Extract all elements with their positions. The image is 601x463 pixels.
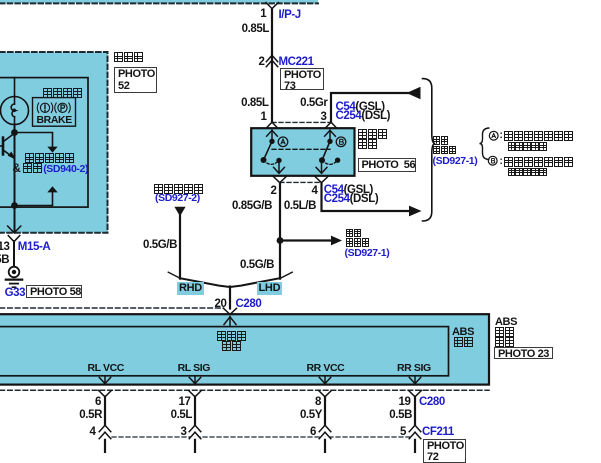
pin label 5 (CF211) [400,427,406,439]
RHD branch wire [180,278,230,287]
CF211 connector pin 5 [409,425,421,439]
connector label MC221 [279,57,314,69]
RL VCC output arrow [99,376,110,384]
legend B colon [500,157,503,167]
photo box 52 [114,67,157,93]
pin label 20 [215,299,227,311]
C280 chevron RL VCC pin 6 [99,390,112,396]
switch B input arrow [325,130,336,141]
switch name 制动灯 [358,129,388,141]
cluster inner circuit box [0,78,88,208]
junction node below lamp [11,129,18,136]
ABS inner label 制动灯 [217,331,247,343]
pin label 8 (C280) [315,397,321,409]
pin label 4 (CF211) [90,427,96,439]
I/P junction box (off-page, top strip) [0,0,318,3]
label BRAKE [37,115,72,126]
legend brace [478,127,498,163]
RR VCC output arrow [319,376,330,384]
wire 0.5Gr from C54 to brake switch pin 3 [331,93,408,122]
legend A text line1 踩下制动踏板的 [504,131,574,143]
connector label M15-A [18,242,51,254]
switch A arm [264,141,273,160]
brake warning symbol (P) [55,103,71,113]
legend B text line2 情况下开启 [508,167,548,179]
LHD branch wire [230,278,280,287]
connector label C254(DSL) top [336,111,391,123]
connector label C54(GSL) top [336,102,385,114]
wire label 0.85L (2) [241,98,268,110]
switch A contact dots [261,139,282,163]
ABS connector C280 dashed boundary [0,389,489,391]
CF211 connector pin 6 [319,425,331,439]
C280 chevron RR SIG pin 19 [409,390,422,396]
legend circle A [488,130,500,142]
switch A input arrow [267,130,278,141]
switch B output arrow to pin 4 [316,160,327,173]
reference label (SD927-1) at arrow [345,248,390,259]
connector boundary dashed line above brake light switch [272,121,331,123]
junction node on 0.85G/B wire [277,237,284,244]
CF211 connector pin 4 [99,425,111,439]
ABS inner label 开关 [222,341,242,353]
reference text 制动灯 (arrow) [346,238,370,250]
label 驻车制动 [43,88,83,100]
wire 0.85G/B from pin 2 down [279,183,281,279]
brake warning symbol (!) [37,103,53,113]
wire pin20 into ABS unit [229,315,231,327]
incoming reference wire from SD927-2 [174,207,185,279]
wire label 0.85G/B [232,201,272,213]
wire 0.5L [194,397,196,454]
photo box 23 [494,347,553,360]
up arrowhead [47,186,57,192]
in-line connector CF211 dashed link [105,436,419,438]
module label 模块 [495,337,515,349]
connector label C254(DSL) bottom [324,194,379,206]
ABS unit label ABS [452,327,474,338]
wire 0.5R [104,397,106,454]
RL SIG output arrow [189,376,200,384]
legend A text line2 情况下闭合 [508,142,548,154]
pin label 2 (switch bottom) [271,186,277,198]
label & 仪表 (SD940-2) [13,163,89,175]
pin label 17 (C280) [179,397,191,409]
incoming reference arrow (from SD927-1) on 0.5Gr wire [407,87,421,99]
signal label RR SIG [397,363,431,374]
wire 0.5Y [324,397,326,454]
wire 0.85L from I/P-J to brake switch pin 1 [271,9,273,122]
photo box 58 [26,285,82,298]
pin 3 chevron at switch top [325,122,337,128]
reference label (SD927-2) [155,193,200,204]
module label ABS [495,317,517,328]
ABS module boundary dashed line [0,307,224,309]
LHD variant tag [257,282,283,295]
cluster main wire [14,125,16,233]
signal label RL VCC [88,363,125,374]
wire label 0.5G/B (LHD) [240,260,274,272]
switch name 开关 [358,139,378,151]
photo box 72 (clipped) [423,439,466,463]
switch B travel arc (dashed) [322,160,338,164]
wire label 0.5B (ground) [0,255,9,267]
photo box 73 [280,68,324,90]
branch to indicator reference (down arrow) [15,133,58,153]
reference 参考制动灯 (SD927-2) [154,184,204,196]
wire to ABS pin 20 [229,287,231,309]
reference text 参考 (SD927-1 brace) [433,136,449,148]
connector I/P-J pin 1 chevron [266,3,278,9]
ABS unit box (cyan) [0,314,489,384]
RR SIG output arrow [409,376,420,384]
photo box 56 [358,158,416,172]
legend circle B [487,155,499,167]
connector label C280 [236,299,262,311]
instrument cluster box (dashed) [0,52,108,233]
CF211 connector pin 3 [189,425,201,439]
module label 控制 [495,327,515,339]
signal label RR VCC [307,363,345,374]
wire label 0.5R [79,410,102,422]
reference label (SD927-1) at brace [433,156,478,167]
pin 1 chevron at switch top [266,122,278,128]
reference text 制动灯 (SD927-1 brace) [433,145,457,157]
connector label CF211 [422,427,454,439]
pin label 6 (CF211) [310,427,316,439]
wire 0.5L/B from pin 4 to SD927-1 [322,183,411,211]
legend A colon [500,131,503,141]
wire label 0.85L [242,24,269,36]
wire label 0.5Y [300,410,322,422]
pin 20 chevron C280 [224,308,237,314]
connector M15-A chevron [8,236,19,242]
in-line connector MC221 [266,55,277,66]
outgoing arrow into reference brace [409,206,422,217]
C280 chevron RL SIG pin 17 [189,390,202,396]
ground label G33 [5,288,26,300]
pin 2 chevron at switch bottom [273,176,287,183]
pin label 13 (M15-A) [0,242,10,254]
RHD variant tag [177,282,204,295]
wire label 0.5B (bottom) [389,410,412,422]
cluster label 仪表盘 [114,52,144,64]
reference text 参考 (arrow) [346,228,362,240]
park brake label box [33,98,76,127]
wire label 0.5Gr [300,98,327,110]
switch A output arrow to pin 2 [274,160,285,173]
ABS unit label 单元 [454,337,474,349]
label circle A [278,137,288,147]
wire 0.5B to ground [13,241,15,267]
mechanical link dashed line between switches [272,148,330,150]
connector label C54(GSL) bottom [324,185,373,197]
reference brace (SD927-1) [423,79,436,221]
junction node lower [11,202,18,209]
outgoing reference arrow to SD927-1 (stop lamp feed) [280,236,342,246]
cluster exit arrow at box bottom [8,226,21,233]
switch B contact dots [319,139,340,164]
wire 0.5B [414,397,416,454]
signal label RL SIG [178,363,210,374]
legend B text line1 踩下制动踏板的 [504,157,574,169]
ground G33 [6,267,22,288]
wire label 0.5G/B (RHD) [143,240,177,252]
wire label 0.5L/B [284,201,316,213]
pin 4 chevron at switch bottom [315,176,329,183]
transistor Q (cluster driver) [0,133,15,158]
pin label 1 (I/P-J) [260,9,266,21]
connector label C280 (bottom) [419,397,445,409]
wire label 0.5L [171,410,192,422]
label circle B [336,137,346,147]
connector label I/P-J [279,10,301,22]
pin label 3 (switch) [321,112,327,124]
branch from gauge reference (up arrow) [15,193,53,206]
brake light switch box [251,128,354,176]
pin label 3 (CF211) [181,427,187,439]
inner circuit box of ABS unit [0,327,449,376]
pin label 1 (switch) [261,112,267,124]
harness tick LHD branch [281,272,292,278]
pin label 6 (C280) [95,397,101,409]
label 参考指示器 [25,153,75,165]
pin label 19 (C280) [399,397,411,409]
C280 chevron RR VCC pin 8 [319,390,332,396]
park brake warning lamp [1,78,29,129]
pin label 2 (MC221) [259,57,265,69]
entry arrow into brake-light-switch circuit of ABS [224,317,236,325]
connector boundary dashed line below switch [280,181,321,183]
harness tick RHD branch [168,272,179,278]
pin label 4 (switch bottom) [312,186,318,198]
switch B arm [322,141,330,160]
switch A travel arc (dashed) [264,160,280,164]
